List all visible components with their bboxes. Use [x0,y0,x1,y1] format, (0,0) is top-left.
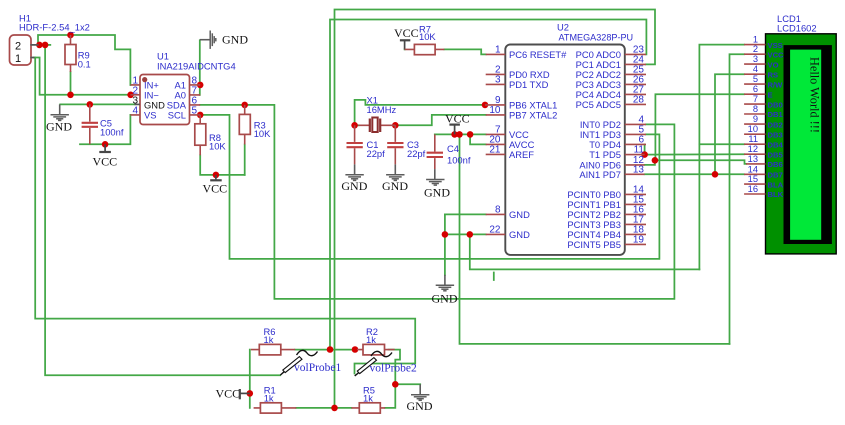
ground under C4 [426,169,444,185]
svg-text:21: 21 [489,144,501,155]
svg-text:10: 10 [489,105,501,116]
svg-text:10K: 10K [254,128,271,139]
svg-text:PC6 RESET#: PC6 RESET# [509,49,567,60]
VCC bottom left [216,386,250,400]
svg-text:SCL: SCL [168,109,186,120]
svg-text:22pf: 22pf [407,148,426,159]
junction (45.1,44.9) [42,42,49,49]
svg-text:ATMEGA328P-PU: ATMEGA328P-PU [559,33,634,43]
junction (244.7,104.9) [241,102,248,109]
junction (644.6,154.6) [641,151,648,158]
svg-text:GND: GND [382,179,408,193]
svg-text:GND: GND [407,399,433,413]
resistor R9 [65,35,91,72]
svg-text:INA219AIDCNTG4: INA219AIDCNTG4 [157,61,236,72]
junction (200.2,84.9) [197,82,204,89]
resistor R6 [251,326,295,355]
MCU U2 ATMEGA328P-PU [485,22,646,255]
svg-text:13: 13 [748,154,758,164]
svg-text:DB0: DB0 [768,100,783,109]
ground under C3 [386,164,404,180]
wire DB5 row [645,153,745,155]
ground left of C5 [51,104,69,120]
svg-text:volProbe2: volProbe2 [370,362,418,374]
wire SCL net U1 pin5 to ATmega pin5 [200,115,659,259]
svg-text:DB6: DB6 [768,160,783,169]
svg-text:C4: C4 [447,143,459,154]
wire H1 pin2 long vertical to probe1 row [45,45,280,375]
junction (654.9,160.3) [652,157,659,164]
svg-text:1: 1 [15,53,21,65]
op IC U1 INA219 [130,51,235,125]
ground under C1 [345,164,363,180]
svg-text:R/W: R/W [768,80,784,89]
svg-text:VCC: VCC [768,50,785,59]
resistor R2 [357,326,395,355]
capacitor C3 [387,125,425,164]
svg-text:22pf: 22pf [367,148,386,159]
svg-text:BLA: BLA [768,180,784,189]
wire GND dot to symbol [395,383,420,385]
junction (459.5,134.4) [456,131,463,138]
resistor R3 [239,105,271,145]
wire crystal right to ATmega pin10 [395,115,485,125]
svg-text:DB4: DB4 [768,140,784,149]
wire DB6 row [655,160,746,164]
wire stray tick [493,273,495,281]
wire W2 R1 to R5 row [296,407,351,409]
svg-text:3: 3 [495,74,501,85]
svg-text:11: 11 [748,134,758,144]
svg-text:PCINT5 PB5: PCINT5 PB5 [567,239,621,250]
svg-text:28: 28 [633,94,645,105]
junction (454.6,134.4) [451,131,458,138]
svg-text:5: 5 [753,74,758,84]
wire U1 A1 A0 tie to top GND [199,40,201,95]
junction (485,104.9) [482,102,489,109]
LCD1602 module [744,13,836,254]
left pin stubs [485,54,505,234]
svg-text:10K: 10K [209,141,226,152]
wire SDA net U1 pin6 to ATmega pin4 [200,105,674,299]
svg-text:1: 1 [753,35,758,45]
svg-text:DB7: DB7 [768,171,783,180]
LCD pin numbers [748,35,758,194]
junction (395.3,384.3) [392,381,399,388]
ground top (rotated, A1 A0 tie) [200,31,216,49]
junction (89.8,104.4) [87,101,94,108]
wire C5 bottom to U1 VS pin4 [80,115,130,144]
svg-text:GND: GND [509,209,530,220]
svg-text:4: 4 [753,64,758,74]
junction (330,349.5) [327,346,334,353]
svg-text:1k: 1k [366,334,376,345]
junction (39.4,44.9) [36,42,43,49]
svg-text:2: 2 [15,41,21,53]
svg-text:3: 3 [753,54,758,64]
svg-text:12: 12 [748,144,758,154]
right pin numbers [633,44,645,245]
svg-text:E: E [768,90,773,99]
wire ATmega pin12 jog [645,160,655,165]
junction (334.5,407.9) [331,405,338,412]
svg-text:PB7 XTAL2: PB7 XTAL2 [509,110,557,121]
wire LCD VSS down left column [699,45,744,270]
svg-text:AIN1 PD7: AIN1 PD7 [579,169,621,180]
wire GND vertical to symbol [444,214,446,275]
crystal X1 [359,95,397,133]
svg-text:8: 8 [495,204,501,215]
svg-text:16: 16 [748,184,758,194]
left pin numbers [489,44,501,235]
svg-text:Hello World !!!: Hello World !!! [808,57,822,133]
capacitor C5 [82,104,124,144]
svg-text:GND: GND [424,186,450,200]
svg-text:RS: RS [768,70,779,79]
wire crystal left lead joint [355,124,359,126]
wire VCC rail to ATmega pin7 [435,133,486,135]
wire LCD E pin6 down to DB6 row [655,94,744,160]
junction (470.1,134.4) [467,131,474,138]
wire VCC to R7 left [404,48,406,50]
svg-text:7: 7 [753,94,758,104]
junction (105.1,144.3) [102,141,109,148]
junction (395.3,125.3) [392,122,399,129]
svg-text:1k: 1k [363,393,373,404]
wire GND to U1 pin3 row [60,103,134,105]
svg-text:DB2: DB2 [768,120,783,129]
svg-text:5: 5 [192,106,198,117]
svg-text:19: 19 [633,234,645,245]
svg-text:VCC: VCC [93,155,118,169]
svg-text:13: 13 [633,164,645,175]
probe volProbe1 [280,350,341,375]
LCD pin names [768,41,785,199]
svg-text:16MHz: 16MHz [367,104,397,115]
svg-text:LCD1602: LCD1602 [777,23,817,34]
svg-text:1: 1 [495,44,501,55]
svg-text:9: 9 [753,114,758,124]
wire GND link vertical [470,234,700,269]
VCC below R8 R3 rail [203,175,228,196]
svg-text:VCC: VCC [445,112,470,126]
svg-text:DB3: DB3 [768,130,783,139]
left pin names [509,49,567,240]
resistor R8 [195,115,227,155]
svg-text:14: 14 [748,164,758,174]
ground bottom right [411,384,429,400]
wire DB7 row ATmega pin13 [645,173,745,175]
svg-text:22: 22 [489,224,501,235]
wire ATmega pin8 GND [445,213,486,215]
capacitor C1 [347,125,386,164]
junction (249.8,393.4) [247,390,254,397]
wire R5 right up to GND dot [385,384,395,408]
wire H1 pin2 up to R9-top line [38,35,130,85]
junction (200.2,114.9) [197,112,204,119]
svg-text:HDR-F-2.54_1x2: HDR-F-2.54_1x2 [19,22,90,33]
svg-text:VO: VO [768,60,779,69]
VCC for R7 [394,26,419,49]
svg-text:PC5 ADC5: PC5 ADC5 [576,99,621,110]
svg-text:6: 6 [753,84,758,94]
svg-text:BLK: BLK [768,190,784,199]
svg-text:volProbe1: volProbe1 [294,362,342,374]
ground under ATmega pin8 net [436,275,454,291]
svg-text:15: 15 [748,174,758,184]
svg-text:PD1 TXD: PD1 TXD [509,79,549,90]
right pin names [567,49,621,250]
svg-text:GND: GND [341,179,367,193]
svg-text:1k: 1k [264,334,274,345]
wire R8 bottom to VCC rail [200,155,245,175]
VCC below C5 [93,144,118,168]
svg-text:100nf: 100nf [100,127,124,138]
svg-text:VS: VS [144,109,157,120]
wire LCD RS pin4 down to DB7 row [715,74,744,174]
wire AVCC jog to pin20 [470,134,486,144]
wire W1 R6 to R2 row [295,349,357,351]
junction (70.5,35) [67,32,74,39]
wire ATmega pin6 down to pin11 dot [644,144,646,154]
right pin stubs [625,54,646,244]
probe volProbe2 [355,351,417,376]
junction (215.9,174.9) [213,172,220,179]
VCC above ATmega pin7 [445,112,470,135]
svg-text:VCC: VCC [394,26,419,40]
junction (469.8,234.4) [467,231,474,238]
wire ATmega pin24 to probe R1 row [335,10,656,408]
wire VCC vertical down to LCD VCC row [460,134,730,344]
junction (130.6,94.8) [127,92,134,99]
wire R2 right jog down to GND dot [389,350,401,385]
svg-text:DB1: DB1 [768,110,784,119]
svg-text:VCC: VCC [203,182,228,196]
svg-text:10: 10 [748,124,758,134]
svg-text:0.1: 0.1 [78,58,91,69]
svg-text:2: 2 [753,44,758,54]
wire crystal left to ATmega pin9 [355,100,485,125]
wire H1 pin2 nub [39,44,51,46]
svg-text:1k: 1k [264,393,274,404]
svg-text:8: 8 [753,104,758,114]
wire R9 bottom to IN- row [70,72,72,95]
svg-text:VSS: VSS [768,41,783,50]
junction (354.6,125.3) [351,122,358,129]
resistor R5 [351,385,385,414]
svg-text:AREF: AREF [509,149,534,160]
wire R3 bottom to VCC rail [244,145,246,175]
svg-text:4: 4 [132,106,138,117]
junction (70.5,94.8) [67,92,74,99]
wire LCD VCC pin2 [730,54,745,344]
svg-text:GND: GND [509,229,530,240]
wire H1 pin1 long vertical to probe2 feed [35,58,415,374]
wire H1 pin1 to U1 IN- row [34,58,130,95]
svg-text:VCC: VCC [216,386,241,400]
svg-text:GND: GND [432,292,458,306]
svg-text:GND: GND [222,33,248,47]
svg-text:DB5: DB5 [768,150,784,159]
wire VSS branch to DB4 [699,143,744,145]
junction (715,174.3) [712,171,719,178]
wire R7 right to ATmega pin1 [444,49,485,54]
wire ATmega pin23 to probe1 top [330,20,646,350]
svg-text:100nf: 100nf [447,155,471,166]
svg-text:U2: U2 [557,22,569,33]
header H1 [10,13,90,66]
junction (355,349.5) [352,346,359,353]
svg-text:10K: 10K [419,31,436,42]
wire ATmega pin22 GND row [445,233,486,235]
junction (444.9,234.4) [442,231,449,238]
capacitor C4 [427,134,471,169]
resistor R1 [254,385,297,414]
svg-text:GND: GND [46,120,72,134]
wire bottom left riser R6 R1 [249,350,251,408]
LCD pin stubs [744,45,765,194]
resistor R7 [405,24,445,55]
